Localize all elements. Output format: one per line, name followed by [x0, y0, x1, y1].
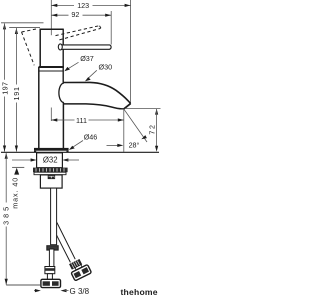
faucet body upper sleeve	[40, 29, 63, 66]
angle dimension 28 degrees	[107, 109, 148, 149]
dimension Ø32	[12, 156, 79, 165]
washer below nut	[34, 172, 66, 175]
extension line spout tip (for 123)	[130, 0, 132, 104]
faucet body right edge lower	[62, 103, 64, 149]
svg-text:Ø30: Ø30	[99, 62, 113, 71]
reference line top of body (191)	[9, 26, 40, 28]
faucet body right edge upper	[62, 29, 64, 84]
label Ø37 with leader	[64, 54, 93, 71]
angled hose collar and G3/8 nut	[67, 257, 91, 281]
straight hose end cap	[47, 246, 58, 250]
svg-text:G 3/8: G 3/8	[70, 287, 90, 296]
base flange	[34, 148, 69, 152]
label G 3/8	[34, 287, 90, 296]
dimension 123	[51, 1, 130, 10]
label Ø46 with leader	[69, 132, 97, 150]
spout outlet face	[124, 104, 131, 109]
spout bottom edge	[63, 104, 123, 109]
svg-text:Ø37: Ø37	[80, 54, 94, 63]
raised handle dashed outline	[22, 26, 101, 66]
counter bottom reference line	[12, 166, 24, 168]
svg-text:Ø32: Ø32	[43, 156, 58, 165]
extension line handle tip (for 92)	[110, 11, 112, 45]
extension line for 72 top	[126, 108, 161, 110]
swivel fitting	[45, 267, 55, 274]
threaded shank	[37, 153, 63, 168]
svg-text:385: 385	[2, 204, 11, 225]
extension line outlet bottom (for 111 / 28deg)	[123, 109, 125, 152]
svg-text:Ø46: Ø46	[84, 132, 98, 141]
svg-text:92: 92	[71, 10, 79, 19]
mounting nut	[33, 168, 68, 173]
G3/8 nut left hose	[41, 279, 61, 287]
spout back cap arc	[59, 83, 64, 102]
neck	[47, 274, 52, 280]
spout top edge	[63, 82, 130, 103]
reference line top of handle (197)	[1, 22, 44, 24]
svg-text:191: 191	[12, 86, 21, 100]
svg-text:111: 111	[76, 116, 87, 125]
centerline extension below spout (for 111)	[50, 108, 52, 122]
dimension 197	[0, 23, 9, 151]
bottom reference line	[6, 284, 40, 286]
dimension 191	[12, 28, 21, 152]
faucet body left edge lower	[38, 67, 40, 148]
dimension 385	[2, 153, 11, 285]
spout	[59, 82, 131, 109]
straight hose tube	[51, 188, 57, 245]
svg-text:28°: 28°	[129, 140, 140, 149]
lever handle bar	[58, 44, 111, 50]
dimension 72	[147, 109, 158, 152]
svg-text:197: 197	[0, 82, 9, 95]
straight hose lower tube	[49, 249, 54, 267]
dimension 111	[51, 116, 124, 125]
svg-text:thehome: thehome	[121, 287, 158, 297]
svg-text:123: 123	[77, 1, 89, 10]
joint thick line	[39, 66, 64, 68]
dimension max 40	[11, 168, 20, 209]
lower body top thin line	[39, 70, 64, 72]
countertop line	[1, 151, 159, 153]
svg-text:max. 40: max. 40	[11, 177, 20, 209]
dimension 92	[51, 10, 111, 19]
lower shank housing	[40, 175, 62, 188]
label Ø30 with leader	[85, 62, 112, 81]
svg-text:72: 72	[147, 123, 156, 134]
angled hose tube	[57, 223, 76, 263]
centerline extension above body	[50, 0, 52, 35]
hose connection fitting	[48, 176, 55, 179]
